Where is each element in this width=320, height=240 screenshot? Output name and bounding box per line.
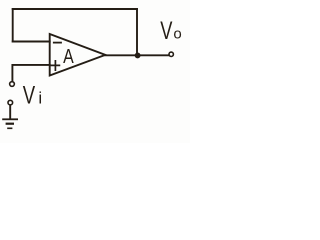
svg-text:A: A [63, 46, 74, 68]
op-amp U1 [50, 34, 106, 76]
node: output junction [135, 52, 141, 58]
ground [2, 119, 18, 128]
wire: Vi lower terminal to ground [9, 105, 11, 118]
op-amp U1 inverting pin mark (-) [54, 42, 61, 44]
wire: non-inverting input from Vi terminal [12, 65, 49, 81]
wire: feedback left vertical [12, 9, 14, 42]
svg-text:o: o [173, 26, 181, 43]
svg-text:V: V [23, 82, 36, 110]
wire: op-amp output to terminal [105, 54, 169, 56]
svg-text:i: i [38, 89, 42, 108]
op-amp U1 non-inverting pin mark (+) [51, 61, 59, 70]
wire: inverting input (node to op-amp) [13, 41, 50, 43]
terminal: Vi lower (open circle) [8, 100, 13, 105]
svg-text:V: V [160, 17, 172, 45]
terminal: Vi upper (open circle) [10, 82, 15, 87]
wire: feedback right vertical down to output node [136, 9, 138, 55]
wire: feedback top horizontal [13, 8, 137, 10]
terminal: Vo output (open circle) [169, 52, 173, 56]
